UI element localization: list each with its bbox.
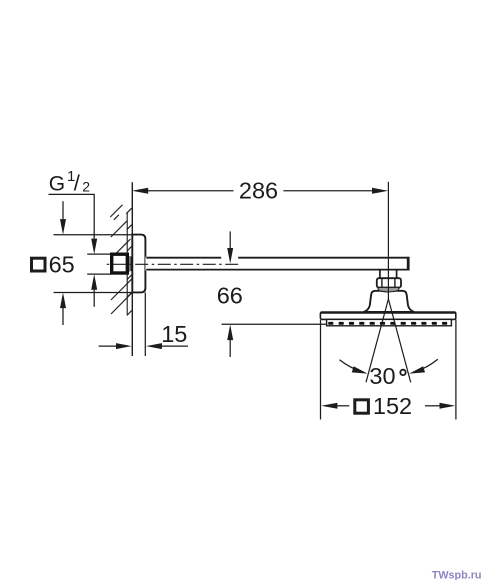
head plate	[320, 312, 455, 319]
dimension 286 line	[148, 190, 372, 192]
svg-text:2: 2	[82, 179, 90, 195]
svg-text:30: 30	[369, 363, 395, 389]
head dome	[364, 291, 415, 312]
svg-text:G: G	[49, 173, 65, 196]
label square65	[32, 258, 46, 271]
shower arm	[145, 257, 409, 271]
G1/2 leader arrow upper	[93, 194, 95, 238]
wall face line	[131, 182, 133, 356]
svg-text:66: 66	[217, 282, 243, 308]
dim 66 top arrow	[229, 231, 231, 248]
dim 65 top arrow	[62, 201, 64, 219]
centerline of arm fitting	[105, 263, 239, 265]
head axis extension line (upper part)	[387, 182, 389, 257]
dim 65 bottom arrow	[62, 308, 64, 325]
head axis extension line (lower part, over arm and fittings)	[387, 257, 389, 299]
svg-text:152: 152	[373, 393, 412, 419]
right arc arrow	[413, 359, 437, 372]
label G 1/2	[49, 168, 95, 196]
svg-text:/: /	[74, 171, 81, 196]
dim 66 bottom arrow	[229, 340, 231, 357]
30 degree cone lines	[366, 299, 411, 382]
dim 15	[144, 292, 146, 356]
svg-text:15: 15	[161, 321, 187, 347]
svg-text:65: 65	[49, 251, 75, 277]
ball nut	[377, 278, 401, 287]
nut at wall	[112, 254, 128, 273]
svg-text:286: 286	[239, 177, 278, 203]
wall hatching	[110, 205, 131, 316]
thread line	[130, 256, 131, 272]
dim 66 bottom ext line	[222, 323, 328, 325]
spray band	[327, 319, 452, 325]
neck below arm	[380, 271, 397, 279]
left arc arrow	[340, 360, 365, 373]
G1/2 leader arrow lower	[93, 290, 95, 307]
dim 65 extension lines	[54, 234, 133, 236]
wall inner line	[126, 213, 128, 315]
label square152	[355, 400, 369, 413]
escutcheon	[132, 235, 145, 293]
nozzles	[328, 322, 447, 325]
svg-text:TWspb.ru: TWspb.ru	[432, 569, 482, 580]
ball joint gray	[378, 288, 400, 293]
dim 152 ext lines	[320, 320, 322, 420]
G1/2 extension ticks on nut	[87, 253, 110, 255]
dim 152 arrows	[337, 405, 349, 407]
